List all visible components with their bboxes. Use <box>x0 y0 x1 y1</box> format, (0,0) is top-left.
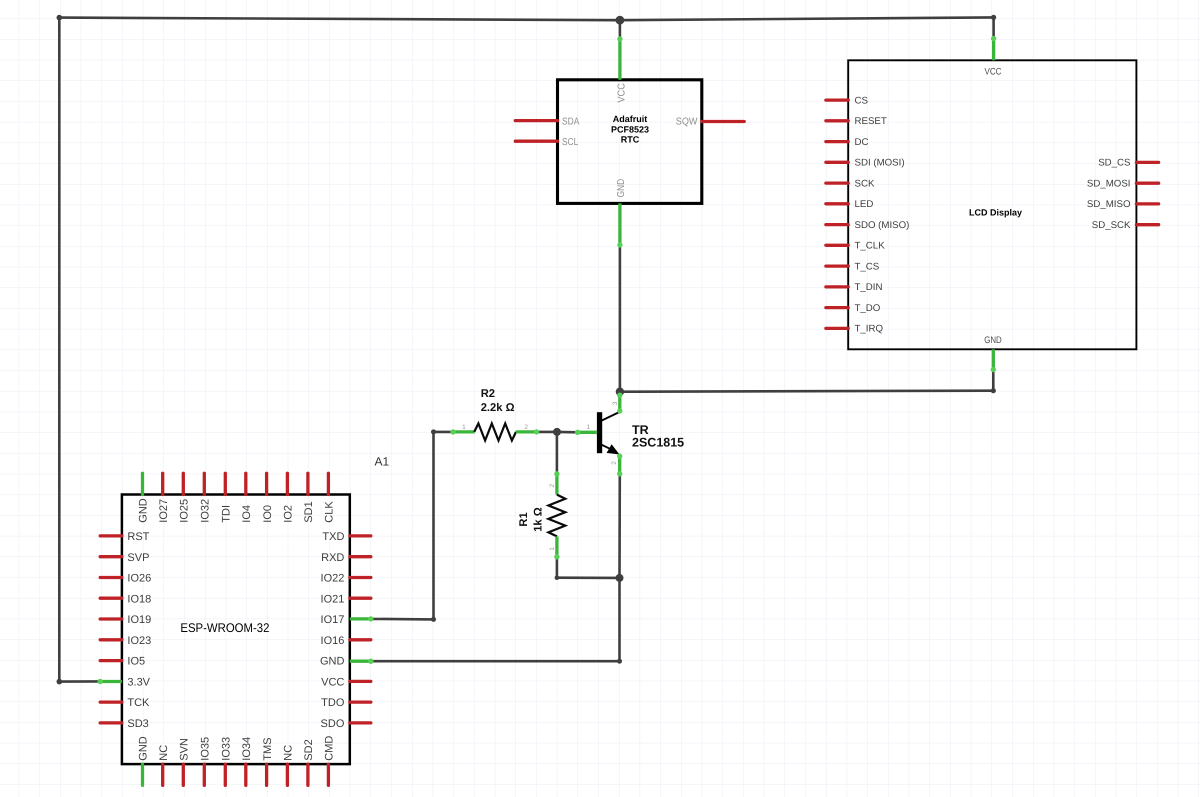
svg-text:2: 2 <box>549 484 556 488</box>
LCD Display box <box>848 60 1136 349</box>
LCD pin T_DIN <box>826 282 883 293</box>
svg-text:NC: NC <box>283 745 295 761</box>
wire base node to transistor base <box>557 431 578 434</box>
svg-text:3.3V: 3.3V <box>127 677 150 689</box>
svg-text:R1: R1 <box>518 512 530 526</box>
svg-text:IO35: IO35 <box>200 737 212 761</box>
wire emitter down <box>618 474 621 578</box>
label A1 <box>375 455 390 469</box>
ESP top pin IO2 <box>283 473 295 522</box>
svg-text:SDO (MISO): SDO (MISO) <box>855 220 910 231</box>
svg-text:1: 1 <box>586 424 590 431</box>
wire emitter node to ESP GND <box>371 578 622 664</box>
svg-text:SCL: SCL <box>562 137 579 148</box>
LCD pin SDI (MOSI) <box>826 158 905 169</box>
TR label <box>632 423 684 450</box>
LCD pin SCK <box>826 178 875 189</box>
svg-text:CS: CS <box>855 95 869 106</box>
junction base node <box>553 428 561 436</box>
R1 pin number 2 <box>549 484 556 488</box>
junction emitter node <box>616 574 624 582</box>
ESP right pin IO17 <box>321 614 374 626</box>
svg-text:SQW: SQW <box>676 116 698 127</box>
TR pin number 1 <box>586 424 590 431</box>
ESP left pin SVP <box>100 552 149 564</box>
ESP left pin IO19 <box>100 614 151 626</box>
ESP top pin GND <box>138 473 150 522</box>
LCD pin VCC leg <box>985 36 1002 77</box>
ESP top pin IO4 <box>241 473 253 522</box>
svg-text:3: 3 <box>612 401 619 405</box>
svg-text:2: 2 <box>611 461 618 465</box>
ESP right pin VCC <box>321 677 371 689</box>
wire rail corner to LCD VCC <box>991 15 996 39</box>
wire RTC GND down to collector node <box>619 245 622 392</box>
LCD pin SD_MISO <box>1087 199 1159 210</box>
wire 3.3V to left rail <box>57 15 101 685</box>
ESP top pin SD1 <box>303 473 315 522</box>
ESP bottom pin SD2 <box>303 739 315 785</box>
RTC pin GND leg <box>616 179 627 248</box>
wire R2 pin1 stub <box>434 431 454 434</box>
svg-text:A1: A1 <box>375 455 390 469</box>
svg-text:CLK: CLK <box>324 501 336 523</box>
svg-text:TXD: TXD <box>322 531 344 543</box>
svg-text:LED: LED <box>855 199 874 210</box>
LCD pin T_CLK <box>826 241 885 252</box>
svg-text:TDO: TDO <box>321 697 345 709</box>
svg-text:T_DIN: T_DIN <box>855 282 883 293</box>
ESP bottom pin NC <box>158 745 170 786</box>
LCD title <box>969 207 1022 217</box>
svg-text:T_CLK: T_CLK <box>855 241 886 252</box>
ESP top pin IO25 <box>179 473 191 522</box>
svg-text:2.2k Ω: 2.2k Ω <box>481 402 515 414</box>
svg-text:T_IRQ: T_IRQ <box>855 324 884 335</box>
svg-text:RST: RST <box>127 531 149 543</box>
LCD pin SD_MOSI <box>1087 178 1159 189</box>
svg-text:SVP: SVP <box>127 552 149 564</box>
ESP right pin GND <box>320 656 374 668</box>
ESP bottom pin CMD <box>324 736 336 786</box>
ESP bottom pin GND <box>138 736 150 785</box>
ESP bottom pin SVN <box>179 738 191 785</box>
ESP left pin RST <box>100 531 149 543</box>
svg-text:IO23: IO23 <box>127 635 151 647</box>
svg-text:T_CS: T_CS <box>855 261 880 272</box>
svg-text:IO27: IO27 <box>158 499 170 523</box>
svg-text:IO4: IO4 <box>241 505 253 523</box>
svg-text:Adafruit: Adafruit <box>613 114 648 124</box>
resistor R1 1k <box>548 471 565 559</box>
wire VCC top rail left segment <box>59 18 620 21</box>
ESP title <box>180 621 269 635</box>
ESP bottom pin IO33 <box>221 737 233 786</box>
ESP left pin TCK <box>100 697 150 709</box>
LCD pin T_CS <box>826 261 880 272</box>
ESP bottom pin NC <box>283 745 295 786</box>
R1 pin number 1 <box>549 547 556 551</box>
ESP left pin 3.3V <box>98 677 151 689</box>
LCD pin GND leg <box>984 335 1002 372</box>
ESP right pin SDO <box>321 718 371 730</box>
RTC pin SCL <box>515 137 578 148</box>
R1 value label <box>518 507 544 532</box>
svg-text:GND: GND <box>616 179 627 198</box>
svg-text:NC: NC <box>158 745 170 761</box>
ESP left pin IO18 <box>100 593 151 605</box>
wire collector node to LCD GND <box>620 370 996 394</box>
LCD pin DC <box>826 137 869 148</box>
R2 pin number 2 <box>524 424 528 431</box>
svg-text:TMS: TMS <box>262 737 274 760</box>
svg-text:SDA: SDA <box>562 116 580 127</box>
ESP right pin TXD <box>322 531 370 543</box>
LCD pin RESET <box>826 116 887 127</box>
svg-text:GND: GND <box>984 335 1002 346</box>
ESP right pin TDO <box>321 697 371 709</box>
R2 value label <box>481 388 515 414</box>
svg-text:ESP-WROOM-32: ESP-WROOM-32 <box>180 621 269 635</box>
svg-text:IO25: IO25 <box>179 499 191 523</box>
svg-text:IO22: IO22 <box>321 573 345 585</box>
svg-text:IO5: IO5 <box>127 656 145 668</box>
svg-text:SD_MISO: SD_MISO <box>1087 199 1131 210</box>
ESP right pin IO21 <box>321 593 371 605</box>
ESP left pin SD3 <box>100 718 149 730</box>
wire VCC top rail right segment <box>620 17 994 20</box>
wire R2 pin2 to base node <box>537 431 557 434</box>
svg-text:VCC: VCC <box>321 677 344 689</box>
ESP left pin IO5 <box>100 656 145 668</box>
svg-text:1k Ω: 1k Ω <box>532 507 544 532</box>
junction top VCC node <box>616 16 625 25</box>
ESP top pin IO32 <box>200 473 212 522</box>
ESP top pin IO27 <box>158 473 170 522</box>
svg-text:SDO: SDO <box>321 718 345 730</box>
RTC pin VCC leg <box>617 36 628 102</box>
resistor R2 2.2k <box>450 424 539 441</box>
svg-text:SDI (MOSI): SDI (MOSI) <box>855 158 905 169</box>
wire junction to RTC VCC <box>619 20 622 39</box>
svg-text:IO19: IO19 <box>127 614 151 626</box>
LCD pin SD_CS <box>1098 158 1158 169</box>
wire IO17 to R2 pin1 <box>371 429 436 622</box>
svg-text:DC: DC <box>855 137 869 148</box>
svg-text:SD2: SD2 <box>303 739 315 760</box>
svg-text:IO34: IO34 <box>241 737 253 761</box>
TR pin number 2 <box>611 461 618 465</box>
ESP right pin RXD <box>321 552 371 564</box>
RTC pin SQW <box>676 116 744 127</box>
svg-text:IO2: IO2 <box>283 505 295 523</box>
svg-text:GND: GND <box>320 656 345 668</box>
svg-text:2SC1815: 2SC1815 <box>632 436 684 450</box>
wire base node down to R1 pin2 <box>556 432 559 474</box>
svg-text:IO16: IO16 <box>321 635 345 647</box>
ESP top pin CLK <box>324 473 336 522</box>
LCD pin LED <box>826 199 873 210</box>
svg-text:SD3: SD3 <box>127 718 148 730</box>
TR pin number 3 <box>612 401 619 405</box>
svg-text:TDI: TDI <box>221 505 233 523</box>
ESP left pin IO23 <box>100 635 151 647</box>
ESP top pin IO0 <box>262 473 274 522</box>
svg-text:PCF8523: PCF8523 <box>611 124 649 134</box>
svg-text:RXD: RXD <box>321 552 344 564</box>
svg-text:SD_CS: SD_CS <box>1098 158 1131 169</box>
svg-text:SVN: SVN <box>179 738 191 761</box>
op-amp U1 Adafruit PCF8523 RTC box <box>558 80 702 204</box>
svg-text:SD1: SD1 <box>303 501 315 522</box>
svg-text:IO33: IO33 <box>221 737 233 761</box>
svg-text:IO0: IO0 <box>262 505 274 523</box>
svg-text:SD_SCK: SD_SCK <box>1092 220 1131 231</box>
svg-text:IO26: IO26 <box>127 573 151 585</box>
LCD pin CS <box>826 95 869 106</box>
svg-text:LCD Display: LCD Display <box>969 207 1022 217</box>
LCD pin T_IRQ <box>826 324 884 335</box>
junction collector node <box>616 388 624 396</box>
wire R1 pin1 to emitter node <box>555 557 620 580</box>
svg-text:VCC: VCC <box>985 66 1002 77</box>
ESP bottom pin TMS <box>262 737 274 785</box>
svg-text:T_DO: T_DO <box>855 303 881 314</box>
svg-text:GND: GND <box>138 498 150 523</box>
svg-text:1: 1 <box>549 547 556 551</box>
ESP top pin TDI <box>221 473 233 522</box>
svg-text:SCK: SCK <box>855 178 875 189</box>
svg-text:TCK: TCK <box>127 697 150 709</box>
svg-text:CMD: CMD <box>324 736 336 761</box>
svg-text:2: 2 <box>524 424 528 431</box>
svg-text:GND: GND <box>138 736 150 761</box>
LCD pin SDO (MISO) <box>826 220 910 231</box>
ESP right pin IO16 <box>321 635 371 647</box>
RTC pin SDA <box>515 116 579 127</box>
ESP bottom pin IO35 <box>200 737 212 786</box>
svg-text:IO17: IO17 <box>321 614 345 626</box>
svg-text:IO21: IO21 <box>321 593 345 605</box>
R2 pin number 1 <box>462 424 466 431</box>
RTC title <box>611 114 649 144</box>
LCD pin SD_SCK <box>1092 220 1159 231</box>
svg-text:RESET: RESET <box>855 116 887 127</box>
svg-text:VCC: VCC <box>617 83 628 103</box>
ESP right pin IO22 <box>321 573 371 585</box>
svg-text:IO32: IO32 <box>200 499 212 523</box>
svg-text:R2: R2 <box>481 388 495 400</box>
svg-text:RTC: RTC <box>621 134 640 144</box>
svg-text:IO18: IO18 <box>127 593 151 605</box>
wire VCC left rail vertical <box>58 18 61 682</box>
LCD pin T_DO <box>826 303 881 314</box>
ESP left pin IO26 <box>100 573 151 585</box>
transistor Q1 TR 2SC1815 <box>575 393 623 477</box>
ESP-WROOM-32 box A1 <box>122 495 350 765</box>
ESP bottom pin IO34 <box>241 737 253 786</box>
svg-text:SD_MOSI: SD_MOSI <box>1087 178 1131 189</box>
svg-text:1: 1 <box>462 424 466 431</box>
